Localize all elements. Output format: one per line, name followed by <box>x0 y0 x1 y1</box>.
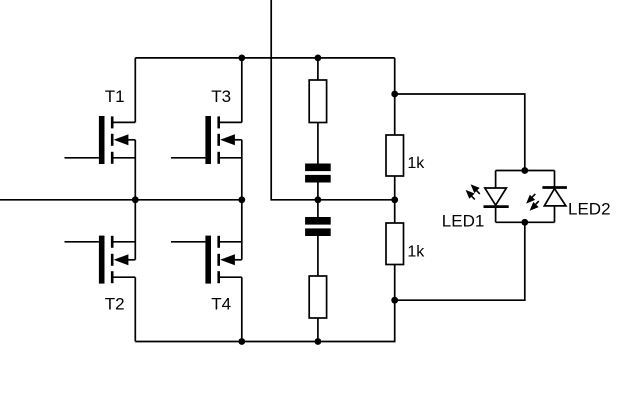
svg-text:1k: 1k <box>407 155 425 172</box>
svg-text:LED2: LED2 <box>568 199 611 218</box>
svg-text:T2: T2 <box>105 294 125 313</box>
svg-text:LED1: LED1 <box>442 212 485 231</box>
svg-text:1k: 1k <box>407 244 425 261</box>
svg-text:T3: T3 <box>211 87 231 106</box>
svg-text:T4: T4 <box>211 294 231 313</box>
svg-text:T1: T1 <box>105 87 125 106</box>
